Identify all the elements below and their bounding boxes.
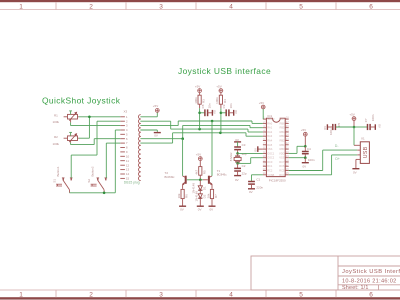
svg-text:10-8-2016 21:46:02: 10-8-2016 21:46:02 xyxy=(342,279,397,285)
svg-text:+5V: +5V xyxy=(195,85,200,89)
svg-text:C7: C7 xyxy=(364,118,368,122)
supply +5V above C4 xyxy=(301,128,307,146)
svg-text:RA2: RA2 xyxy=(267,130,273,134)
svg-text:RC7: RC7 xyxy=(279,160,285,164)
svg-text:RA3: RA3 xyxy=(267,134,273,138)
capacitor C2 22p xyxy=(234,163,247,175)
ground 0V below D2 xyxy=(197,206,204,211)
svg-text:0V: 0V xyxy=(235,178,239,182)
wire T1 collector up to net X xyxy=(211,121,213,176)
wire OSC1 to IC xyxy=(238,152,263,154)
ground 0V left of C5 xyxy=(323,124,327,130)
svg-text:R3: R3 xyxy=(202,99,206,103)
capacitor C1 220n at VUSB xyxy=(248,175,263,190)
ground 0V below R6 xyxy=(179,206,186,211)
svg-text:Joystick USB interface: Joystick USB interface xyxy=(178,66,271,76)
svg-text:Button2: Button2 xyxy=(90,166,94,176)
IC1 pin names xyxy=(267,117,275,177)
svg-text:BC849c: BC849c xyxy=(217,172,228,176)
svg-text:C4: C4 xyxy=(307,147,311,151)
svg-text:4: 4 xyxy=(229,291,233,298)
svg-text:0V: 0V xyxy=(303,164,307,168)
svg-text:C9: C9 xyxy=(222,104,226,108)
junction R4 on net Button2 xyxy=(219,132,222,135)
resistor R5 4k7 xyxy=(195,167,207,180)
IC IC1 PIC18F2550 body xyxy=(266,118,285,176)
resistor R4 100k xyxy=(215,95,227,108)
wire net X (pin3 to IC pin2) xyxy=(140,121,263,126)
svg-text:VSS: VSS xyxy=(267,147,272,151)
svg-text:2: 2 xyxy=(89,3,93,10)
svg-text:13: 13 xyxy=(126,168,130,172)
wire +5V junction to USB vcc xyxy=(353,127,355,145)
diode D2 1N4148 xyxy=(195,190,207,206)
wire R3 to net xyxy=(199,108,201,129)
svg-text:0V: 0V xyxy=(249,190,253,194)
wire S1 to pin2 xyxy=(71,121,120,178)
wire net Button2 (pin7 to IC pin5) xyxy=(140,133,263,143)
svg-text:100n: 100n xyxy=(371,114,375,121)
junction OSC1 xyxy=(236,152,239,155)
svg-text:3: 3 xyxy=(159,291,163,298)
supply +5V above R4 xyxy=(216,85,223,96)
ground 0V right of C8 xyxy=(212,110,216,116)
svg-text:4: 4 xyxy=(229,3,233,10)
transistor T1 BC849c xyxy=(203,176,212,189)
svg-text:0V: 0V xyxy=(210,207,214,211)
ground 0V at IC pin8 xyxy=(253,146,263,152)
wire +5V rail pots to pin1 xyxy=(79,117,121,138)
svg-text:USB: USB xyxy=(363,146,369,158)
svg-text:VDD: VDD xyxy=(279,151,285,155)
junction OSC2 xyxy=(236,162,239,165)
connector X3 pin numbers xyxy=(126,115,130,181)
svg-text:8 MHz: 8 MHz xyxy=(229,152,233,161)
svg-text:RC0: RC0 xyxy=(267,160,273,164)
capacitor C8 10n xyxy=(200,103,212,116)
svg-text:DB15 plug: DB15 plug xyxy=(124,181,140,185)
ground 0V right of C9 xyxy=(234,110,238,116)
ground 0V right of C7 xyxy=(375,124,381,130)
junction USB VCC xyxy=(353,126,356,129)
svg-text:12: 12 xyxy=(126,163,130,167)
label R1 100k xyxy=(53,114,60,125)
wire X pot wiper to pin3 xyxy=(70,122,72,125)
label T2 BC849c xyxy=(165,171,176,179)
svg-text:S2: S2 xyxy=(87,179,91,183)
IC1 right pin stubs xyxy=(285,119,289,175)
svg-text:2: 2 xyxy=(89,291,93,298)
svg-text:BC849c: BC849c xyxy=(165,175,176,179)
wire D- IC to USB xyxy=(289,150,358,170)
supply +5V above USB xyxy=(349,112,356,127)
svg-text:Sheet: 1/1: Sheet: 1/1 xyxy=(342,285,369,291)
ground 0V below USB xyxy=(352,159,359,174)
ground 0V at DB15 pin4 xyxy=(140,130,160,138)
wire net Button1 (pin2 to IC pin4) xyxy=(140,121,263,132)
junction R4 cap tap xyxy=(220,112,223,115)
svg-text:C8: C8 xyxy=(201,104,205,108)
svg-text:R6: R6 xyxy=(185,194,189,198)
svg-text:6: 6 xyxy=(369,3,373,10)
label T1 BC849c xyxy=(217,169,228,177)
switch S1 xyxy=(56,178,73,193)
junction S2 common xyxy=(103,192,106,195)
svg-text:D1: D1 xyxy=(203,186,207,190)
svg-text:R2: R2 xyxy=(54,135,58,139)
svg-text:C2: C2 xyxy=(242,164,246,168)
svg-text:R5: R5 xyxy=(202,170,206,174)
svg-text:RA5: RA5 xyxy=(267,143,273,147)
svg-text:R1: R1 xyxy=(54,114,58,118)
junction T1 collector on net X xyxy=(211,120,214,123)
svg-text:+5V: +5V xyxy=(196,153,201,157)
potentiometer R1 xyxy=(64,111,79,123)
svg-text:0V: 0V xyxy=(323,126,327,130)
svg-text:+5V: +5V xyxy=(349,112,354,116)
ground 0V above C3 xyxy=(234,138,241,147)
svg-text:0V: 0V xyxy=(234,110,238,114)
junction R3 cap tap xyxy=(198,112,201,115)
wire base rail T2-T1 xyxy=(187,179,203,181)
resistor R3 100k xyxy=(194,95,206,108)
svg-text:220n: 220n xyxy=(256,186,263,190)
svg-text:PIC18F2550: PIC18F2550 xyxy=(269,179,286,183)
svg-text:RB5: RB5 xyxy=(279,126,285,130)
ground 0V below R7 xyxy=(209,206,216,211)
wire S2 to pin7 xyxy=(106,143,120,178)
svg-text:5: 5 xyxy=(299,291,303,298)
svg-text:10n: 10n xyxy=(229,103,233,108)
svg-text:100k: 100k xyxy=(194,97,198,104)
capacitor C9 10n xyxy=(221,103,233,116)
capacitor C7 100n xyxy=(354,114,375,130)
svg-text:1N4148: 1N4148 xyxy=(195,191,199,202)
svg-text:10n: 10n xyxy=(208,103,212,108)
connector X1 USB xyxy=(354,142,369,164)
svg-text:1: 1 xyxy=(19,291,23,298)
svg-text:+5V: +5V xyxy=(216,85,221,89)
ground 0V below C1 xyxy=(248,189,255,194)
svg-text:0V: 0V xyxy=(180,207,184,211)
svg-text:39k: 39k xyxy=(206,193,210,198)
connector X3 DB15 xyxy=(120,115,140,181)
svg-text:14: 14 xyxy=(126,172,130,176)
svg-text:RB6: RB6 xyxy=(279,121,285,125)
svg-text:RB7: RB7 xyxy=(279,117,285,121)
svg-text:+5V: +5V xyxy=(301,128,306,132)
label R2 100k xyxy=(53,135,60,146)
wire OSC2 to IC xyxy=(238,158,263,164)
ground 0V below C4 xyxy=(302,158,309,169)
svg-text:0V: 0V xyxy=(253,148,257,152)
svg-text:0V: 0V xyxy=(213,110,217,114)
svg-text:0V: 0V xyxy=(154,134,158,138)
svg-text:11: 11 xyxy=(126,159,129,163)
svg-text:S1: S1 xyxy=(52,179,56,183)
svg-text:0V: 0V xyxy=(198,207,202,211)
svg-text:QuickShot Joystick: QuickShot Joystick xyxy=(42,95,121,105)
svg-text:OSC2: OSC2 xyxy=(267,156,275,160)
svg-text:C1: C1 xyxy=(256,177,260,181)
svg-text:1: 1 xyxy=(19,3,23,10)
svg-text:RC5: RC5 xyxy=(279,169,285,173)
svg-text:RC1: RC1 xyxy=(267,164,273,168)
svg-text:X1: X1 xyxy=(361,137,365,141)
ground 0V below C2 xyxy=(234,176,241,182)
svg-text:100k: 100k xyxy=(215,97,219,104)
junction VSS C4 xyxy=(304,156,307,159)
svg-text:+5V: +5V xyxy=(153,104,158,108)
svg-text:RB2: RB2 xyxy=(279,139,285,143)
svg-text:4k7: 4k7 xyxy=(195,169,199,174)
capacitor C5 100u xyxy=(328,122,354,135)
wire VDD to +5V junction xyxy=(289,146,306,153)
svg-text:10: 10 xyxy=(126,154,130,158)
junction R5 base rail xyxy=(199,179,202,182)
svg-text:22p: 22p xyxy=(242,152,247,156)
svg-text:RC4: RC4 xyxy=(279,173,285,177)
svg-text:0V: 0V xyxy=(353,170,357,174)
capacitor C4 100n xyxy=(302,146,315,162)
resistor R7 39k below T1 xyxy=(206,189,218,205)
svg-text:D-: D- xyxy=(335,144,339,148)
svg-text:Button1: Button1 xyxy=(56,166,60,176)
wire D+ IC to USB xyxy=(289,155,358,175)
wire R4 to net xyxy=(220,108,222,133)
svg-text:C5: C5 xyxy=(337,122,341,126)
svg-text:R4: R4 xyxy=(223,99,227,103)
wire VSS to C4 xyxy=(289,157,306,159)
svg-text:RB4: RB4 xyxy=(279,130,285,134)
junction VDD +5V xyxy=(304,145,307,148)
svg-text:RC2: RC2 xyxy=(267,169,273,173)
wire Y pot wiper to pin6 xyxy=(71,139,121,145)
supply +5V above R3 xyxy=(195,85,202,96)
svg-text:X3: X3 xyxy=(124,110,128,114)
svg-text:22p: 22p xyxy=(242,172,247,176)
svg-text:IC1: IC1 xyxy=(268,114,273,118)
svg-text:R7: R7 xyxy=(214,194,218,198)
svg-text:RB0: RB0 xyxy=(279,147,285,151)
label S1 Button1 xyxy=(52,166,60,183)
diode D1 1N4148 xyxy=(192,180,207,194)
capacitor C3 22p xyxy=(234,143,247,156)
svg-text:100n: 100n xyxy=(308,158,315,162)
junction pots rail xyxy=(88,116,91,119)
wire switch common to pin4 xyxy=(70,130,121,193)
label S2 Button2 xyxy=(87,166,95,183)
svg-text:100k: 100k xyxy=(53,142,60,146)
svg-text:0V: 0V xyxy=(378,124,382,128)
svg-text:C3: C3 xyxy=(242,143,246,147)
svg-text:100u: 100u xyxy=(329,128,333,135)
wire T2 collector up to net Y xyxy=(182,139,184,176)
resistor R6 10k below T2 xyxy=(177,189,189,205)
junction R3 on net Button1 xyxy=(198,128,201,131)
svg-text:100k: 100k xyxy=(53,120,60,124)
svg-text:JoyStick USB Interf: JoyStick USB Interf xyxy=(342,269,400,275)
transistor T2 BC849c xyxy=(182,176,185,189)
svg-text:RB3: RB3 xyxy=(279,134,285,138)
svg-text:5: 5 xyxy=(299,3,303,10)
svg-text:RA4: RA4 xyxy=(267,139,273,143)
wire net Y (pin6 to IC pin3) xyxy=(140,125,263,138)
supply +5V above R5 xyxy=(196,153,203,167)
svg-text:RB1: RB1 xyxy=(279,143,285,147)
IC1 right pin numbers xyxy=(286,116,289,176)
potentiometer R2 xyxy=(64,132,79,142)
junction T2 collector on net Y xyxy=(181,137,184,140)
svg-text:OSC1: OSC1 xyxy=(267,151,275,155)
svg-text:+5V: +5V xyxy=(259,101,264,105)
svg-text:3: 3 xyxy=(159,3,163,10)
svg-text:VUSB: VUSB xyxy=(267,173,274,177)
svg-text:6: 6 xyxy=(369,291,373,298)
crystal Q1 8MHz xyxy=(229,152,241,163)
switch S2 xyxy=(91,178,108,193)
svg-text:D2: D2 xyxy=(203,194,207,198)
svg-text:RA1: RA1 xyxy=(267,126,273,130)
svg-text:RA0: RA0 xyxy=(267,121,273,125)
IC1 left pin numbers xyxy=(263,116,266,176)
svg-text:RC6: RC6 xyxy=(279,164,285,168)
svg-text:10k: 10k xyxy=(177,193,181,198)
supply +5V at IC pin1 xyxy=(259,101,265,119)
supply +5V at DB15 pin1 xyxy=(140,104,159,117)
svg-text:VSS: VSS xyxy=(279,156,284,160)
IC1 left pin stubs xyxy=(263,119,267,175)
svg-text:D+: D+ xyxy=(335,157,339,161)
